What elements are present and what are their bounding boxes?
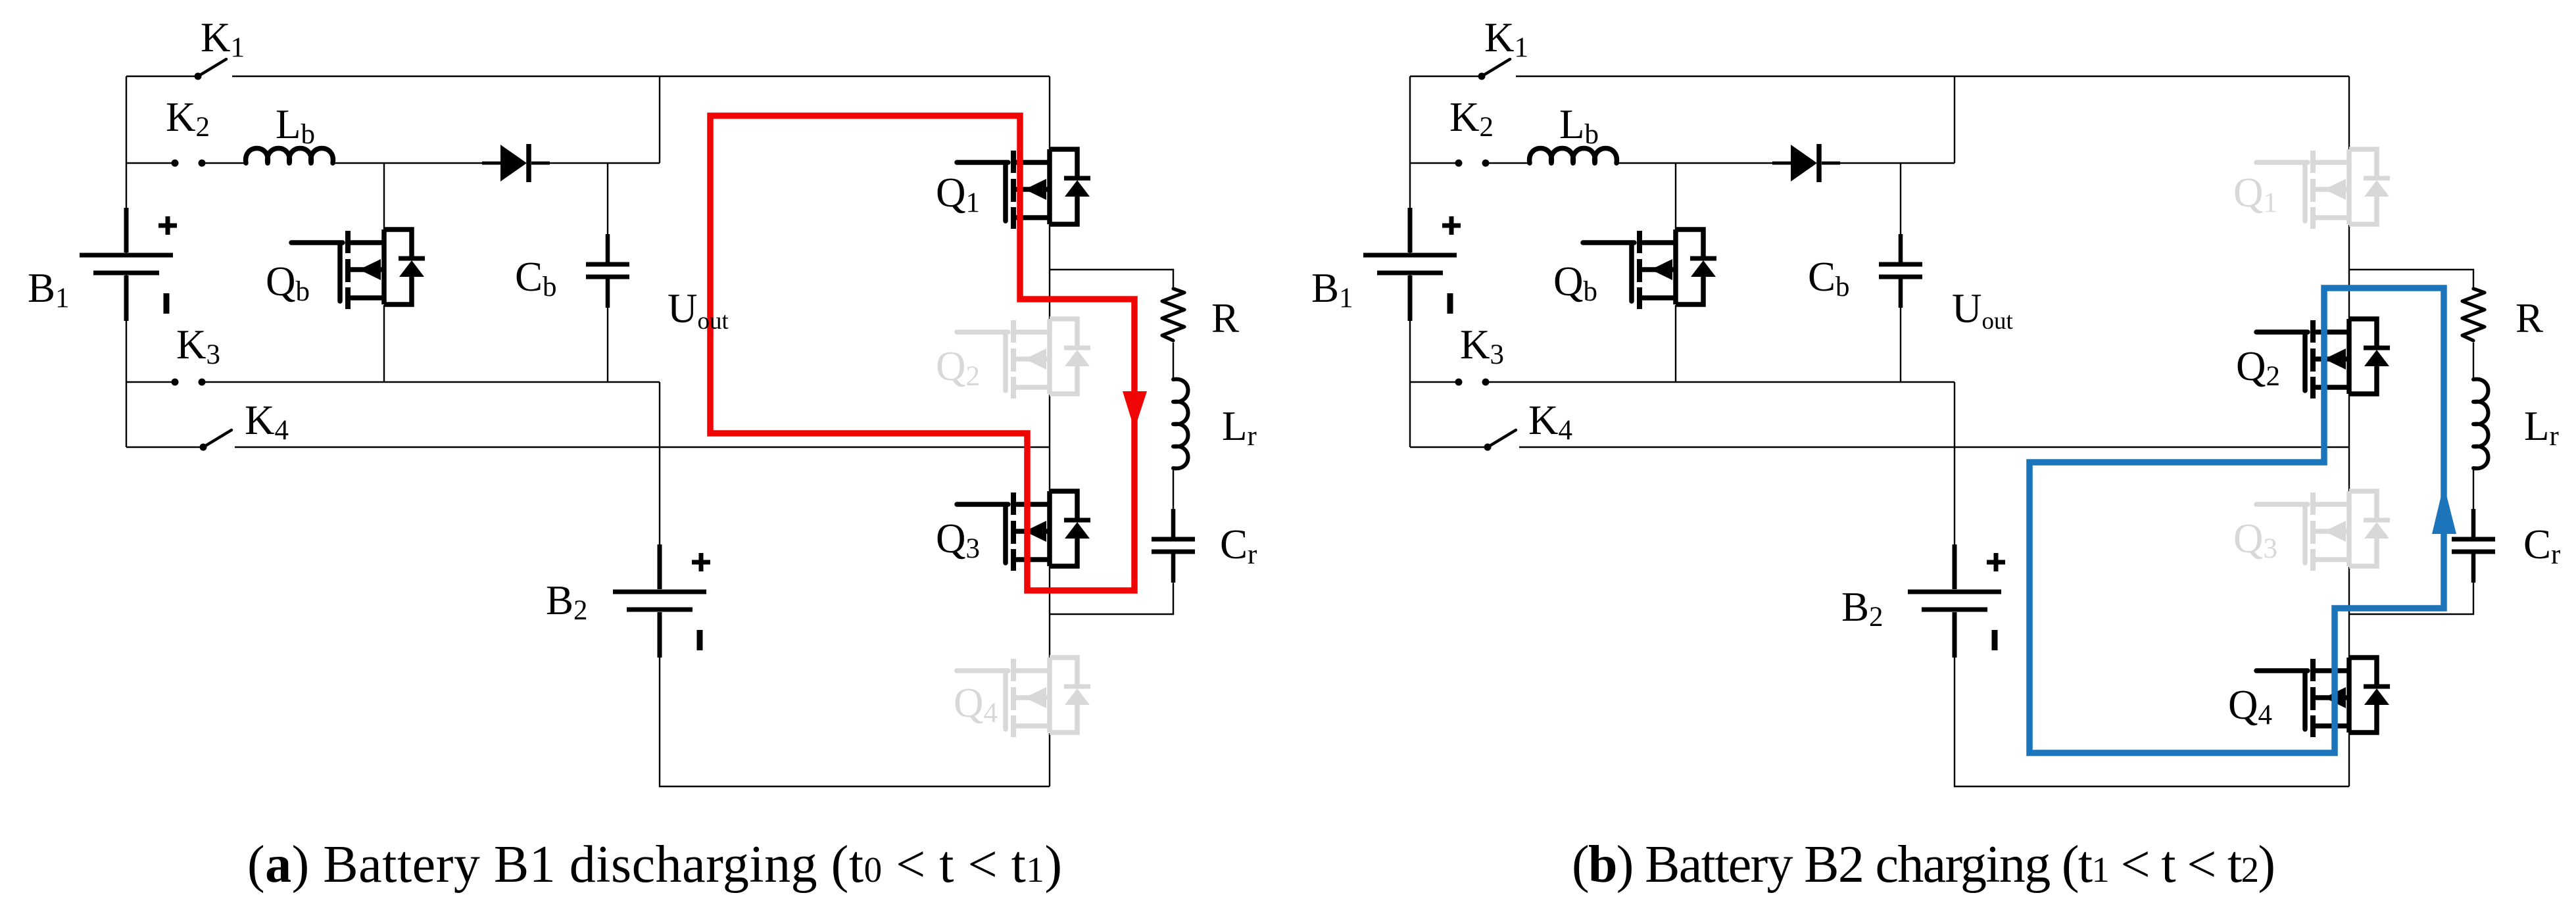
svg-text:(a) Battery B1 discharging (t0: (a) Battery B1 discharging (t0 < t < t1)	[247, 836, 1062, 894]
svg-text:R: R	[1211, 295, 1239, 341]
svg-text:(b) Battery B2 charging (t1 <: (b) Battery B2 charging (t1 < t < t2)	[1572, 836, 2275, 894]
svg-text:R: R	[2515, 295, 2543, 341]
